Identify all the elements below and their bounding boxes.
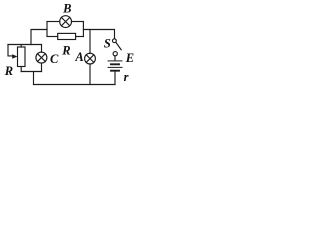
- svg-text:E: E: [125, 51, 134, 65]
- svg-text:r: r: [124, 70, 129, 84]
- svg-text:S: S: [104, 36, 111, 50]
- svg-text:R: R: [61, 43, 70, 57]
- svg-text:C: C: [50, 52, 59, 66]
- svg-text:A: A: [74, 50, 83, 64]
- svg-text:R: R: [4, 64, 13, 78]
- svg-text:B: B: [62, 1, 71, 15]
